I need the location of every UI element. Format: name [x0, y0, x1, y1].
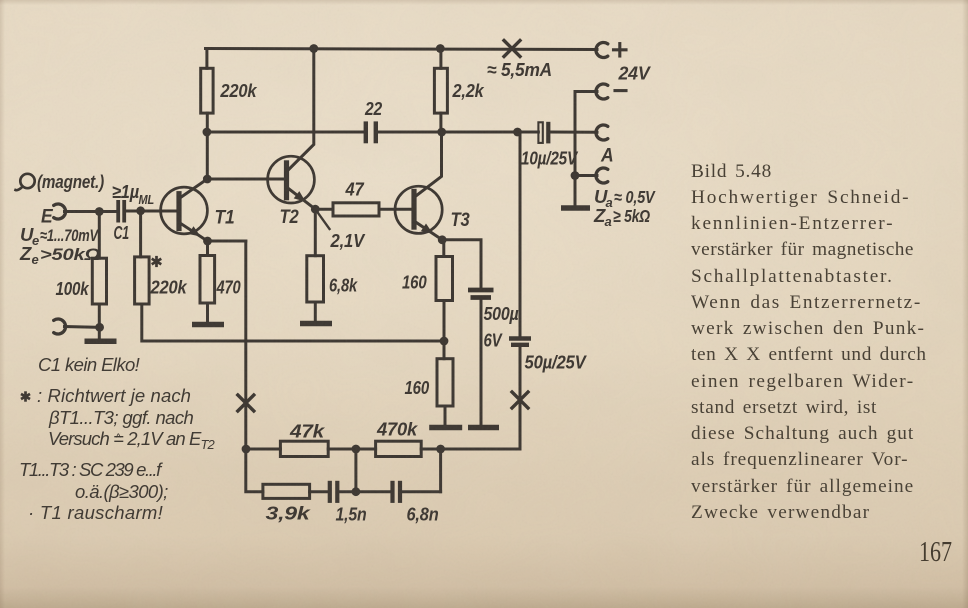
resistor 470 (T1 emitter) [200, 256, 215, 304]
wire top supply rail [206, 49, 598, 50]
terminal - supply [596, 84, 608, 99]
wire minus terminal [575, 90, 597, 93]
transistor T1 [161, 187, 208, 234]
node C1/220k* junction [136, 206, 145, 215]
wire C1 to T1 base [126, 210, 177, 213]
ground under 500u [468, 425, 499, 431]
svg-text:≥ 5kΩ: ≥ 5kΩ [613, 206, 650, 226]
annotation: C1 kein Elko! [38, 354, 139, 376]
X break mark on supply rail [504, 41, 520, 57]
capacitor 22 (coupling) [364, 121, 368, 143]
wire mid vertical link [354, 449, 357, 492]
X break mark left [238, 395, 254, 411]
wire T3 collector [415, 132, 441, 197]
wire 2,2k bottom [439, 113, 442, 132]
wire 3,9k to 1,5n [310, 490, 328, 493]
svg-text:100k: 100k [56, 278, 91, 299]
node T2 emitter [311, 205, 320, 214]
X break mark right [512, 392, 528, 408]
wire 2,2k top [439, 49, 442, 69]
resistor 47k [280, 441, 328, 456]
wire T3 emitter to 160 [442, 240, 445, 257]
svg-text:(magnet.): (magnet.) [37, 172, 104, 192]
ground output [561, 205, 590, 211]
svg-text:T3: T3 [451, 209, 470, 231]
svg-text:22: 22 [364, 98, 383, 119]
node T3 emitter [438, 235, 447, 244]
node jack/100k-ground junction [95, 323, 104, 332]
wire between 160s [443, 301, 446, 359]
wire right vertical link [439, 449, 442, 492]
svg-text:1,5n: 1,5n [336, 504, 367, 525]
svg-text:47: 47 [345, 179, 366, 200]
ground under 100k [85, 338, 117, 344]
wire 6,8k top [314, 209, 317, 256]
wire rail2 right segment [378, 131, 538, 134]
ground under 160 [429, 425, 462, 431]
wire 47 to T3 base [379, 208, 412, 211]
node feedback rail left [242, 445, 251, 454]
terminal E (input jack hot) [54, 204, 66, 219]
transistor T3 [395, 186, 442, 233]
annotation: T1..T3 SC 239 [19, 459, 160, 481]
svg-text:≈1...70mV: ≈1...70mV [40, 226, 99, 245]
wire 100k bottom to ground [98, 304, 101, 339]
resistor 3,9k [263, 484, 310, 498]
wire lower branch left [246, 449, 263, 492]
wire 220k* bottom to mid rail [142, 304, 444, 341]
svg-text:a: a [605, 214, 612, 229]
wire 470 bottom [206, 303, 209, 322]
svg-text:24V: 24V [618, 63, 652, 84]
svg-text:e: e [32, 233, 39, 248]
svg-text:2,1V: 2,1V [330, 230, 366, 251]
svg-text:220k: 220k [150, 277, 189, 298]
wire rail2 left segment [207, 131, 364, 134]
annotation: Richtwert je nach [37, 385, 191, 407]
resistor 220k (T1 collector) [201, 68, 213, 113]
capacitor 50u/25V [509, 336, 531, 340]
wire 220k* top [139, 211, 142, 257]
annotation: Versuch 2,1V an ET2 [48, 428, 214, 452]
wire feedback rail [246, 448, 281, 451]
node input/100k junction [95, 207, 104, 216]
wire node to 6,8n [356, 490, 390, 493]
capacitor 6,8n [390, 481, 394, 503]
node feedback rail right [436, 445, 445, 454]
annotation: beta T1..T3 ggf nach [49, 407, 193, 429]
node T2 collector on top rail [309, 44, 318, 53]
svg-text:160: 160 [402, 272, 427, 293]
node feedback rail mid [352, 445, 361, 454]
capacitor 10u/25V (output coupling) [538, 122, 542, 143]
pickup symbol (magnet. cartridge) [20, 174, 34, 188]
wire 50u branch upper [519, 132, 522, 337]
wire 100k top [98, 212, 101, 259]
wire 500u to ground [480, 300, 483, 426]
node 220k bottom on rail2 [203, 128, 212, 137]
svg-text:160: 160 [405, 377, 430, 398]
page number [919, 536, 952, 569]
svg-text:10µ/25V: 10µ/25V [521, 148, 579, 169]
svg-text:T1: T1 [215, 207, 235, 229]
wire T1 emitter [181, 224, 208, 242]
node output terminal junction [571, 171, 580, 180]
svg-text:≈ 0,5V: ≈ 0,5V [614, 187, 656, 207]
svg-text:≥1µ: ≥1µ [112, 181, 139, 202]
svg-text:220k: 220k [220, 80, 259, 101]
resistor 47 [333, 203, 379, 216]
asterisk for footnote [24, 391, 27, 401]
node T1 collector [203, 175, 212, 184]
wire 1,5n to node [339, 490, 356, 493]
resistor 6,8k [307, 256, 324, 302]
svg-text:ML: ML [139, 192, 155, 207]
wire T3 emitter [415, 222, 442, 240]
svg-text:T2: T2 [280, 206, 299, 228]
wire input E to C1 [65, 210, 117, 213]
capacitor 1,5n [328, 481, 332, 503]
svg-text:470k: 470k [376, 419, 419, 440]
resistor 2,2k [434, 68, 447, 113]
svg-text:47k: 47k [289, 421, 326, 442]
terminal input jack ground lug [54, 319, 66, 334]
capacitor 500u/6V [468, 288, 494, 293]
svg-text:a: a [606, 195, 613, 210]
wire output ground vertical [574, 92, 577, 206]
svg-text:A: A [600, 145, 613, 167]
resistor 160 (upper) [436, 257, 453, 301]
svg-text:e: e [32, 252, 39, 267]
wire T1 emitter to left feedback line [208, 240, 246, 243]
wire 470 top [206, 241, 209, 256]
svg-text:6V: 6V [484, 330, 504, 351]
resistor 470k [376, 441, 422, 456]
wire 10u to terminal A [550, 131, 597, 134]
annotation: o.ae. beta 300 [75, 481, 168, 503]
wire T1 collector to T2 base [207, 178, 284, 181]
svg-text:Z: Z [19, 243, 32, 264]
svg-text:6,8n: 6,8n [407, 504, 439, 525]
svg-text:470: 470 [216, 277, 242, 298]
resistor 160 (lower) [437, 359, 453, 406]
resistor 220k* (base bias) [135, 257, 150, 304]
node lower branch mid [352, 487, 361, 496]
transistor T2 [268, 156, 315, 203]
svg-text:E: E [41, 206, 54, 228]
wire 220k to top rail [205, 49, 208, 69]
node T1 emitter [203, 237, 212, 246]
annotation: T1 rauscharm [28, 502, 163, 524]
wire jack lug to node [65, 325, 100, 329]
node 2,2k top on top rail [436, 44, 445, 53]
svg-text:C1: C1 [114, 222, 130, 243]
capacitor C1 [116, 200, 120, 223]
wire left feedback vertical [244, 241, 247, 449]
svg-text:3,9k: 3,9k [266, 503, 312, 524]
minus sign [615, 89, 626, 92]
wire low terminal [575, 174, 597, 177]
svg-text:2,2k: 2,2k [452, 80, 486, 101]
svg-text:6,8k: 6,8k [329, 275, 359, 296]
wire T1 collector [181, 113, 208, 197]
terminal output low [596, 168, 608, 183]
wire 6,8n to right link [402, 490, 441, 493]
ground under 6,8k [300, 321, 332, 327]
resistor R 100k [92, 258, 106, 304]
wire 50u branch lower [519, 347, 522, 450]
pointer line 2,1V [315, 209, 329, 229]
plus sign [614, 48, 627, 51]
terminal + supply [596, 43, 608, 58]
svg-text:≈ 5,5mA: ≈ 5,5mA [487, 59, 552, 80]
svg-text:500µ: 500µ [484, 303, 519, 324]
caption text block [691, 159, 941, 527]
wire T2 collector [288, 49, 314, 171]
ground under 470 [192, 322, 224, 328]
asterisk mark [155, 256, 158, 267]
wire 6,8k bottom [314, 302, 317, 321]
wire T2 emitter to 47 [315, 208, 333, 211]
svg-text:50µ/25V: 50µ/25V [525, 352, 588, 373]
wire T2 emitter [288, 188, 316, 209]
node 2,2k bottom on rail2 [437, 128, 446, 137]
node mid rail to 160s [440, 337, 449, 346]
wire T3 emitter to 500u [442, 240, 481, 288]
node 50u line on rail2 [513, 128, 522, 137]
wire 160 lower to ground [444, 406, 447, 425]
terminal A [596, 125, 608, 140]
